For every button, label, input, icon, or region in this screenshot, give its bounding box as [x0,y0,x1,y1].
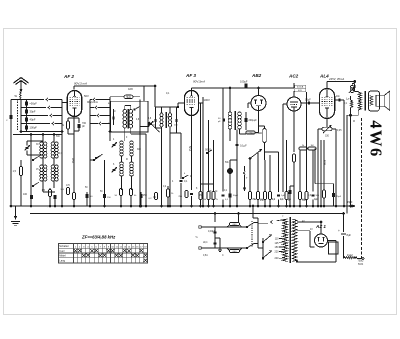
wire V2 anode side [199,102,204,104]
wire switch column [89,100,91,208]
capacitor trim IF1b [148,121,153,126]
wire HT bus [30,213,344,215]
capacitor 50uF [85,192,93,206]
wire IF1 bottom [125,128,146,141]
capacitor IF1 inner [108,109,114,125]
capacitor IF3 a [218,118,225,123]
label tube V3 [251,73,262,78]
wire riser x306 [306,92,308,184]
wire secondary return dashed [361,118,363,259]
coil IF3 secondary [238,112,242,129]
tube AF2 V1 [67,91,81,117]
speaker former [369,91,380,111]
svg-text:Kurz: Kurz [59,249,65,253]
wire dashed gang link [17,99,19,131]
wire V2 cathode [191,116,193,191]
wire IF2 bottom [156,128,163,207]
svg-text:50µF: 50µF [233,195,239,197]
wire riser x200 [200,103,202,184]
capacitor trimmer T1 [25,145,30,150]
wire V3 top [258,87,260,96]
capacitor IF2 b [174,107,178,128]
wire filter tap [215,238,222,251]
switch voltage selector [262,235,283,261]
tube AB2 V3 [251,96,266,111]
switch band2 row 2 [90,106,110,109]
capacitor 25uF [332,184,342,206]
svg-text:30pF: 30pF [30,110,36,114]
resistor bottom x306 [305,184,308,207]
wire riser x270 [269,155,271,184]
capacitor tone 10n [335,96,344,102]
switch IF1 trim [134,107,139,110]
capacitor AF coupling [236,130,248,208]
wire V2 anode [192,88,226,91]
resistor osc2 [130,189,138,208]
wire output primary [347,82,358,214]
svg-text:100pF: 100pF [30,126,38,130]
core IF3 [234,111,235,130]
wire left lower rail [13,134,62,136]
wire antenna column [20,99,22,132]
ground chassis [11,206,20,226]
svg-text:AB2: AB2 [251,73,262,78]
resistor volume 0.5M [255,126,278,192]
label current V5 [323,160,326,165]
capacitor 150 [103,160,112,207]
transformer secondary [292,219,297,262]
antenna [14,78,29,85]
capacitor 1uF [281,186,291,207]
wire IF1 feed [143,86,145,101]
coil field winding [344,257,364,263]
coil antenna L5 [40,165,47,181]
switch tone [206,150,212,154]
wire V5 extra [320,140,322,207]
capacitor pad [139,192,142,207]
resistor 25k x258 [257,184,265,207]
svg-text:4mA: 4mA [323,160,326,165]
core IF1 [127,109,128,129]
indicator pointer [243,180,245,191]
svg-text:M: M [353,121,355,123]
resistor 170 [60,188,69,195]
wire riser x208 [208,120,210,184]
resistor cathode V1 [61,118,79,134]
label field coil [347,253,353,257]
coil IF2 primary [160,107,163,141]
wire V5 anode [327,82,355,89]
wire riser x313 [312,150,314,184]
switch AVC [182,173,188,179]
wire switch out [254,223,258,249]
capacitor 100pF [25,124,37,132]
resistor pair AC2 grid [299,145,316,150]
capacitor 10uF [301,99,319,105]
svg-text:700Ω: 700Ω [358,260,364,263]
wire riser x265 [264,160,266,184]
svg-text:+: + [338,229,340,233]
coil osc L8 [130,162,134,176]
wire IF2 ground lead [145,134,147,207]
wire IF2 top bar [155,106,178,108]
wire V3 bottom [258,111,260,133]
wire ground bus [11,205,355,207]
switch mains [246,221,254,249]
resistor 0,1 x270 [269,184,276,207]
capacitor V2 grid [177,133,188,207]
svg-text:AF 3: AF 3 [185,73,196,78]
wire V2 anode load link [199,103,214,184]
svg-text:Schalter: Schalter [59,244,69,248]
table X marks [74,249,147,262]
label tube V4 [288,74,299,79]
capacitor 0,1 x278 [277,184,284,207]
coil antenna L3 [51,142,54,158]
svg-text:100µF: 100µF [240,80,248,84]
wire band row 3 [21,114,62,117]
wire V4 top [293,83,295,88]
inductor choke top [227,222,242,227]
svg-text:125: 125 [275,242,280,245]
wire V4 grid [283,104,287,192]
wire coil links [42,134,55,193]
capacitor 0,1 x223 [222,184,229,207]
table labels [59,244,147,262]
label model 4W6 [367,120,386,158]
capacitor &#8776;50pF [25,100,37,108]
svg-text:5kΩ: 5kΩ [126,96,131,99]
capacitor trimmers osc [112,142,117,172]
switch mute [243,166,245,180]
svg-text:40V: 40V [298,90,302,92]
tube AZ1 V6 [315,234,328,247]
svg-text:1M: 1M [310,145,313,147]
label 50k [205,149,211,152]
resistor 0.5M [246,111,259,135]
resistor 2k x213 [212,184,219,207]
wire V6 cath [320,246,322,247]
coil antenna coupling [15,92,22,99]
wire row bottom [20,131,62,133]
wire left drop 2 [30,135,32,208]
svg-text:4W6: 4W6 [367,120,386,158]
svg-text:0,1µF: 0,1µF [240,144,247,148]
svg-text:AL4: AL4 [319,74,329,79]
wire rectifier plate 2 [297,231,315,247]
wire V4 cathode [293,111,295,152]
coil IF3 primary [228,112,232,129]
switch wave mid [90,156,100,161]
wire V1 cathode drop [73,116,75,193]
wire IF3 bottom [230,129,246,141]
svg-text:Lang: Lang [59,258,65,262]
wire avc drops [49,188,56,207]
coil osc L6 [130,141,134,156]
resistor V4 cathode [293,154,296,207]
coil antenna L4 [55,142,58,158]
svg-text:0,04µF: 0,04µF [208,230,216,233]
label Lp [346,97,350,101]
svg-text:15µF: 15µF [347,201,353,204]
resistor cathode V2 [178,191,193,208]
coil osc L7 [120,162,124,176]
speaker magnet [376,95,384,106]
wire bus drop a [238,213,240,223]
label tube V1 [63,74,74,79]
wire IF2 diag link [140,122,160,132]
svg-text:90V,3 mA: 90V,3 mA [74,82,87,86]
label boxes AC2 [295,85,306,92]
svg-text:5034: 5034 [358,264,364,266]
svg-text:90V,2mA: 90V,2mA [87,100,98,104]
label tube V2 [185,73,196,78]
wire riser x258 [257,152,259,184]
wire riser x213 [213,140,215,184]
svg-text:10µF: 10µF [305,99,311,102]
wire riser x223 [222,88,224,184]
svg-text:50V: 50V [84,94,89,98]
resistor det [148,193,157,201]
svg-text:0,5A: 0,5A [203,254,208,257]
wire jack [230,160,237,168]
label tube V6 [315,224,326,229]
coil voice [370,96,373,106]
wire V2 grid [177,103,184,108]
label anode voltage V1 [74,82,87,86]
wire IF2 HT feed [154,85,156,107]
label anode voltage V2 [193,80,205,84]
svg-text:0,5MΩ: 0,5MΩ [255,133,262,135]
wire band row 2 [21,106,62,109]
wire cathode link right [315,149,334,184]
capacitor cathode V1 [74,118,87,131]
resistor + capacitor AVC [42,189,57,199]
svg-text:Mittel: Mittel [59,254,66,258]
wire field out [357,258,364,260]
capacitor 50uF forest [228,194,238,198]
svg-text:5mA: 5mA [188,146,191,151]
resistor 100 ohm [315,140,325,207]
label screen V1 [84,94,98,104]
resistor 1.5k [13,160,23,206]
inductor choke bottom [227,248,242,253]
svg-text:8µF: 8µF [347,233,352,237]
svg-text:1µF: 1µF [281,195,285,197]
wire osc column [109,100,111,142]
capacitor mains filter [208,227,216,248]
jack phono [227,168,232,173]
svg-text:90V,3mA: 90V,3mA [193,80,205,84]
wire jack down [229,174,231,207]
transformer primary [283,219,288,262]
svg-text:200µµF: 200µµF [249,119,258,122]
terminal mains [195,226,205,250]
label current V2 [188,146,191,151]
wire bus drop b [214,213,216,223]
coil antenna L6 [51,165,58,181]
wire heater loop [296,241,336,263]
svg-text:DAB: DAB [128,88,133,91]
label tube V5 [319,74,329,79]
capacitor 100pF padder [23,193,33,199]
resistor 50k x208 [207,184,215,207]
svg-text:245V, 35mA: 245V, 35mA [328,77,344,81]
core mains transformer [289,217,290,263]
wire band row 4 [21,122,62,125]
transformer output [358,91,365,111]
wire osc links [122,156,132,190]
coil antenna L1 [40,142,43,158]
capacitor 0,1 x313 [312,184,319,207]
resistor 50 x286 [285,184,292,207]
wire trimmer links [27,141,43,155]
svg-text:~: ~ [195,235,198,241]
coil IF1 secondary [129,110,133,129]
svg-text:AF 2: AF 2 [63,74,74,79]
resistor 25k x200 [199,184,207,207]
switch osc [95,154,102,158]
wire left edge drop [6,100,21,208]
svg-text:ZF=≈63/4,88 kHz: ZF=≈63/4,88 kHz [81,235,116,240]
wire riser x286 [286,140,288,184]
svg-text:100V: 100V [204,98,210,102]
resistor screen 5k [110,95,141,207]
table band switch [59,244,148,264]
core IF2 [165,112,166,128]
wire V5 cath gnd2 [332,129,337,207]
label 100V [204,98,210,102]
wire link c1uF [290,185,294,187]
wire tone drop [343,100,345,207]
wire V2 out column [202,97,204,207]
tube AC2 V4 [287,91,301,111]
wire selector arm [258,247,263,249]
switch band2 row 3 [90,114,110,117]
switch band2 row 4 [90,122,110,125]
coil antenna L2 [44,142,47,158]
svg-text:4V: 4V [310,229,313,231]
capacitor IF3 b [244,112,257,130]
wire band row 1 [21,98,62,101]
svg-text:110: 110 [275,238,279,241]
tube AF3 V2 [185,91,199,116]
coil variable feedback [349,81,356,94]
switch wave left [32,156,39,187]
wire link [43,191,55,193]
label anode V5 [328,77,344,81]
wire rectifier plate top [297,221,322,234]
switch band2 row 1 [90,98,110,101]
wire antenna lead [20,81,22,93]
svg-text:0,05: 0,05 [337,130,342,132]
wire heater loop box [329,242,339,254]
wire HT link [252,205,258,223]
svg-text:220: 220 [275,250,280,253]
svg-text:25µF: 25µF [336,196,342,198]
coil IF1 primary [123,110,127,129]
svg-text:240: 240 [275,257,280,260]
wire IF1 tops [125,106,131,110]
capacitor 15uF [347,201,355,207]
capacitor 40pF [25,116,36,124]
wire riser x250 [249,160,251,184]
resistor V1 bottom [73,193,76,208]
svg-text:≈50pF: ≈50pF [30,102,38,106]
wire ecap riser [229,184,231,192]
wire IF2 sec bottom [169,128,177,207]
resistor 2k [167,186,175,207]
wire V3 diode lead [248,103,251,108]
wire V5 cathode [326,119,328,128]
wire grid column V1 [61,100,63,208]
wire V1 anode feed [74,86,155,90]
svg-text:1mA: 1mA [71,158,74,163]
wire V1 grid [62,102,67,104]
coil Lp [350,96,353,207]
resistor forest 265 [264,184,267,207]
svg-text:0,6mA: 0,6mA [297,86,304,89]
resistor 1,2k x250 [249,184,258,207]
resistor 50k x300 [299,184,307,207]
wire cap down [343,236,345,259]
svg-text:L p: L p [346,97,350,101]
coil osc L5 [120,141,124,156]
wire primary top switch [258,215,288,224]
wire mains pair [201,227,247,248]
svg-text:0,5MΩ: 0,5MΩ [247,133,254,135]
resistor osc1 [115,189,123,208]
svg-text:AC2: AC2 [288,74,299,79]
wire V5 cath gnd [317,129,322,207]
wire riser x300 [299,150,301,184]
capacitor 100uF [225,80,294,89]
svg-text:100: 100 [23,193,28,196]
coil IF2 secondary [168,107,171,133]
tube AL4 V5 [319,89,334,119]
wire HT to cap [343,213,345,233]
svg-text:150: 150 [275,246,280,249]
resistor V5 cathode 150 [322,125,332,137]
capacitor IF2 a [153,107,157,128]
label current V1 [71,158,74,163]
svg-text:40pF: 40pF [30,118,36,122]
speaker cone [384,91,390,110]
label 01 top [166,92,170,95]
switch pot wiper [249,149,262,159]
wire IF3 top [229,87,231,112]
capacitor 8uF [338,229,351,237]
label values scatter [36,88,364,266]
capacitor 30pF [25,108,36,116]
shield IF1 can [111,101,149,132]
